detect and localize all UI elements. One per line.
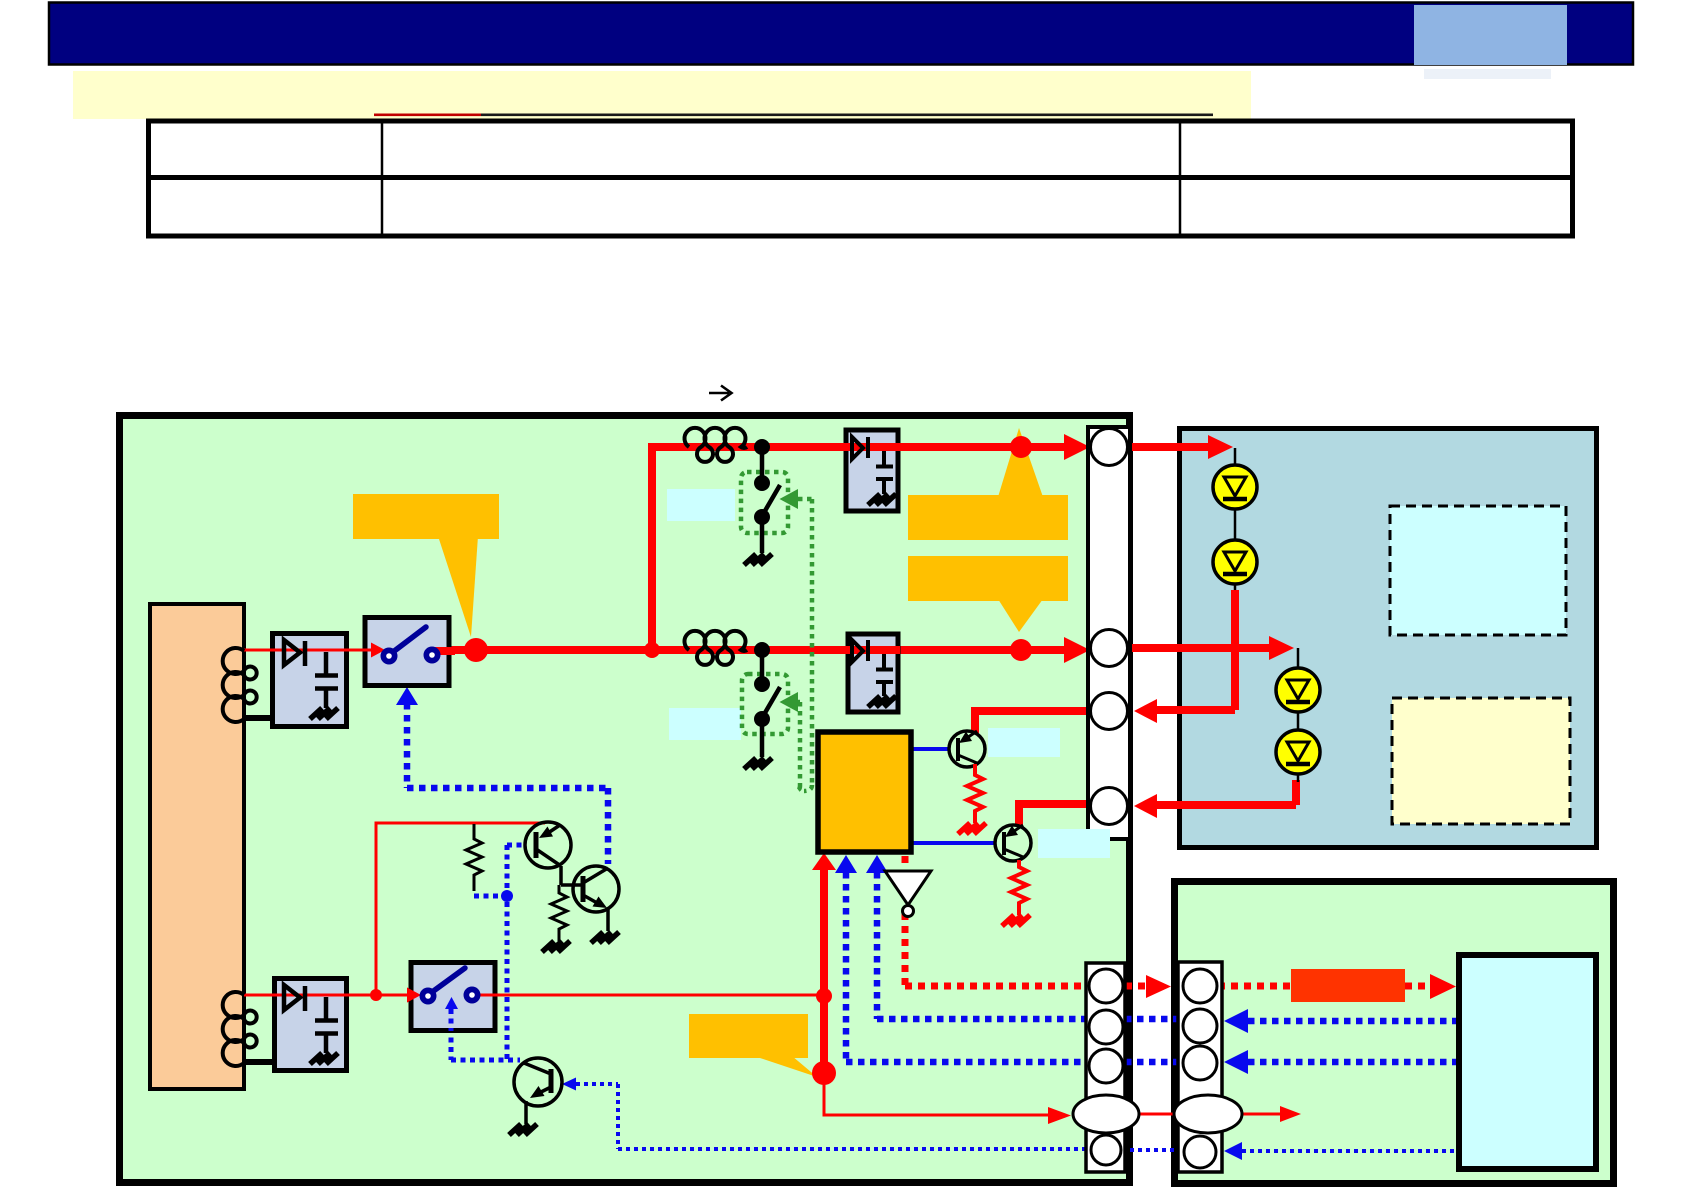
wire blue dashed gap row3 (1125, 1059, 1183, 1066)
wire thin red to bottom connector row4 (824, 1073, 1048, 1115)
diode box T2 (845, 634, 900, 712)
node red junction lower line (1010, 639, 1032, 661)
resistor R2 (551, 885, 567, 941)
wire red dashed to signal label (1218, 983, 1291, 990)
wire red LED chain 1 return (1157, 590, 1235, 710)
arrow red into connector pin 1 (1064, 434, 1090, 460)
signal label red box (1291, 969, 1405, 1002)
arrow thin red into switch 1 (371, 643, 385, 658)
arrow red dashed into control box (1430, 974, 1456, 999)
wire red LED chain 2 return (1157, 780, 1296, 805)
wire thick red riser to upper line (652, 447, 1066, 650)
ground Q2 emitter (591, 932, 619, 943)
pale yellow heading band (73, 71, 1251, 119)
node red junction transistor branch (370, 989, 382, 1001)
resistor R1 (466, 824, 482, 891)
green dashed wire from IC to contact2 (794, 702, 800, 791)
wire blue dashed control box row3 (1248, 1059, 1456, 1066)
LED 1 (1213, 465, 1257, 509)
arrow blue up into IC 2 (866, 855, 888, 873)
arrow red at LED chain 1 (1208, 435, 1233, 459)
ground in diode box T2 (868, 696, 896, 707)
arrow thin red into switch 3 (407, 988, 421, 1003)
relay coil B bottom wire (244, 1059, 272, 1065)
relay coil B (223, 992, 257, 1066)
LED chain 2 wires (1297, 648, 1300, 782)
resistor RQ5 (red) (1011, 860, 1027, 915)
right lamp box (light blue) (1180, 429, 1597, 848)
wire thin red row4 across gap (1139, 1113, 1175, 1116)
wire thin red branch to Q1 emitter (376, 823, 545, 995)
relay coil A bottom wire (244, 715, 272, 721)
ground RQ4 (red) (958, 823, 986, 834)
node red junction IC riser at switch3 wire (816, 988, 832, 1004)
ground chain 2 (744, 758, 772, 769)
small black arrow glyph above diagram (709, 386, 732, 401)
main ECU box (green) (120, 416, 1130, 1183)
arrow red into connector pin 2 (1064, 637, 1090, 663)
cyan label Q4 (988, 728, 1060, 757)
ground in diode box L2 (310, 1053, 338, 1064)
relay switch box 3 (407, 963, 500, 1032)
arrow blue dotted into Q3 (562, 1078, 576, 1091)
green dashed wire from IC to contact1 (798, 499, 812, 791)
gold banner A (upper fuse label) (908, 428, 1068, 540)
wire red pin1 to lamp box (1127, 443, 1210, 451)
node red junction upper line (1010, 436, 1032, 458)
ground in diode box T1 (868, 494, 896, 505)
green arrow at contact 1 (780, 489, 799, 509)
ground R2 (542, 941, 570, 952)
ground RQ5 (red) (1002, 915, 1030, 926)
ground Q3 (509, 1124, 537, 1135)
wire blue dotted Q3 base from control box (576, 1084, 1090, 1149)
inverter gate (885, 871, 931, 917)
fuse contact chain 1 (754, 439, 780, 553)
inductor coil T2 (685, 631, 748, 665)
cyan label T2 (669, 708, 741, 740)
gold callout 1 (relay label) (353, 494, 499, 637)
bottom-right unit box (green) (1175, 882, 1614, 1184)
node red big junction IC riser (812, 1061, 836, 1085)
wire thin red relay coil B feed (244, 994, 407, 997)
node red junction at riser (644, 642, 660, 658)
transistor Q5 (995, 825, 1031, 861)
connector bar bottom right (1174, 962, 1242, 1172)
node blue junction at resistor branch (501, 890, 513, 902)
dashed cyan box in lamp unit (1390, 506, 1566, 635)
arrow red into pin 4 from lamp box (1134, 794, 1157, 818)
wire blue dotted row5 from control box (1242, 1149, 1456, 1153)
LED 2 (1213, 540, 1257, 584)
wire red dashed across gap (1125, 983, 1146, 990)
wire blue dotted row5 gap (1122, 1148, 1184, 1152)
fuse contact chain 2 (754, 642, 780, 757)
arrow red up into IC (812, 853, 836, 870)
arrow blue dashed row3 into bar (1224, 1050, 1248, 1074)
arrow blue dotted row5 into bar (1224, 1142, 1242, 1160)
arrow blue up into IC 1 (835, 855, 857, 873)
node red junction at switch1 output (464, 638, 488, 662)
wire red dashed IC output (905, 856, 1087, 986)
control unit cyan box (1459, 955, 1596, 1169)
wire thin red switch3 to IC riser (471, 994, 824, 997)
header light blue block (1414, 5, 1567, 65)
relay coil A (223, 648, 257, 722)
diode box L1 (269, 634, 349, 727)
wire red IC supply riser (820, 868, 828, 1073)
transistor Q3 (514, 1058, 562, 1124)
wire red pin2 to lamp box (1127, 644, 1269, 652)
wire red Q5 collector to pin 4 (1019, 804, 1090, 826)
wire blue dashed IC input 1 (846, 872, 1089, 1062)
resistor RQ4 (red) (967, 764, 983, 823)
gold callout 3 (power label) (689, 1014, 817, 1077)
IC block (gold) (818, 732, 911, 852)
header navy title bar (49, 3, 1633, 65)
info table (146, 121, 1575, 236)
wire red dashed label to control box (1405, 983, 1430, 990)
wire thin red row4 output arrow (1242, 1113, 1280, 1116)
gold banner B (lower fuse label) (908, 556, 1068, 632)
cyan label T1 (667, 489, 735, 521)
wire red Q4 collector to pin 3 (975, 711, 1090, 733)
arrow blue dashed row2 into bar (1224, 1009, 1248, 1033)
arrow red into pin 3 from lamp box (1134, 699, 1157, 723)
arrow blue up inside switch3 (443, 996, 460, 1010)
arrow red at LED chain 2 (1269, 636, 1294, 660)
transistor Q2 (561, 866, 619, 931)
ground in diode box L1 (310, 708, 338, 719)
green arrow at contact 2 (780, 692, 799, 712)
diode box L2 (271, 979, 349, 1071)
LED 3 (1276, 668, 1320, 712)
relay switch box 1 (362, 618, 455, 686)
heading underline red part (374, 114, 481, 117)
wire blue dashed switch1 control (407, 703, 608, 864)
wire blue dashed IC input 2 (877, 872, 1089, 1019)
arrow blue up into switch1 (396, 687, 418, 705)
transistor Q1 (525, 822, 571, 885)
LED chain 1 wires (1234, 448, 1237, 590)
cyan label Q5 (1038, 829, 1110, 858)
arrow thin red row4 output (1280, 1106, 1301, 1122)
orange relay block (150, 604, 244, 1089)
wire blue dashed gap row2 (1125, 1016, 1183, 1023)
connector bar top (1088, 427, 1130, 839)
wire thick red main B+ line (lower) (436, 646, 1066, 654)
connector bar bottom left (1073, 963, 1139, 1172)
heading underline dark part (481, 114, 1213, 117)
wire blue dashed control box row2 (1248, 1018, 1456, 1025)
diode box T1 (843, 430, 901, 511)
wire thin red relay coil A feed (244, 649, 372, 652)
inductor coil T1 (685, 428, 748, 462)
LED 4 (1276, 730, 1320, 774)
wire blue IC to Q4 base (912, 747, 950, 751)
wire blue IC to Q5 base (912, 841, 996, 845)
arrow red dashed into right bar (1146, 975, 1171, 998)
ground chain 1 (744, 554, 772, 565)
green dashed box around contact 1 (741, 472, 788, 533)
green dashed box around contact 2 (742, 674, 788, 734)
transistor Q4 (949, 731, 985, 767)
dashed yellow box in lamp unit (1392, 698, 1570, 824)
faint strip under light blue block (1424, 69, 1551, 79)
arrow thin red into row4 ellipse (1048, 1107, 1071, 1124)
wire blue dashed switch3 control net (451, 845, 524, 1060)
